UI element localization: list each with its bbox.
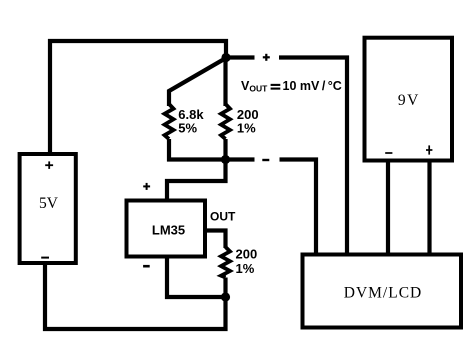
node A junction dot (221, 53, 230, 62)
wire R2 bottom lead (223, 139, 227, 162)
wire diagonal node A to R1 top (169, 58, 226, 106)
svg-text:OUT: OUT (210, 209, 236, 223)
wire bottom junction row node B (167, 157, 255, 161)
label 5V plus (45, 161, 53, 169)
label 9V plus (426, 145, 432, 154)
label LM35 minus pin (143, 265, 150, 268)
battery V2 9V box (365, 38, 453, 161)
svg-text:1%: 1% (236, 261, 255, 276)
wire node A to + terminal (226, 55, 255, 59)
node B junction dot (221, 155, 230, 164)
wire node A to R2 top (223, 58, 227, 107)
wire R1 bottom lead (167, 139, 171, 162)
svg-text:9V: 9V (398, 92, 420, 109)
svg-text:LM35: LM35 (152, 223, 185, 238)
meter DVM/LCD box (303, 255, 462, 328)
wire node B to LM35 + pin (167, 160, 226, 201)
label - output terminal (262, 159, 269, 161)
wire LM35 OUT pin to R3 (205, 231, 226, 249)
wire + to DVM/LCD (279, 58, 347, 255)
node C junction dot (221, 292, 230, 301)
svg-text:200: 200 (236, 246, 258, 261)
battery V1 5V box (20, 154, 76, 263)
svg-text:10 mV / °C: 10 mV / °C (283, 79, 342, 93)
label + output terminal (263, 54, 270, 61)
wire 9V plus to DVM/LCD (427, 160, 431, 254)
label 9V minus (385, 152, 392, 154)
wire R3 bottom lead to node C (223, 278, 227, 298)
wire - to DVM/LCD (280, 160, 317, 255)
svg-text:5%: 5% (178, 121, 197, 136)
wire left vertical 5V+ (48, 39, 52, 154)
IC U1 LM35 box (127, 201, 206, 257)
resistor R2 200 1% (221, 104, 230, 139)
svg-text:DVM/LCD: DVM/LCD (344, 284, 422, 301)
svg-text:1%: 1% (237, 121, 256, 136)
label LM35 plus pin (143, 183, 150, 190)
resistor R1 6.8k 5% (165, 104, 174, 139)
resistor R3 200 1% (221, 247, 230, 278)
wire top from 5V+ to node A (48, 41, 226, 58)
wire 9V minus to DVM/LCD (386, 160, 390, 254)
wire LM35 - pin to node C (167, 258, 226, 297)
svg-text:5V: 5V (39, 195, 59, 212)
label 5V minus (41, 257, 49, 259)
wire node C to 5V - terminal (45, 264, 226, 329)
